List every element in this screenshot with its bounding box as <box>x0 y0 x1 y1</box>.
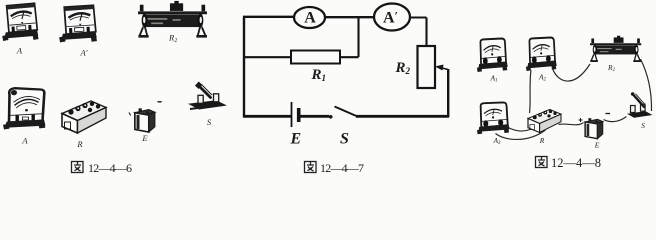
wire battery E left to R box right <box>559 123 584 125</box>
resistance box R (pictorial) <box>62 101 106 133</box>
svg-text:R2: R2 <box>395 60 411 76</box>
ammeter A1 (pictorial) <box>477 39 508 72</box>
wiper arrow of R2 <box>440 68 448 70</box>
wire: battery to switch <box>299 115 329 118</box>
battery cell E (pictorial) <box>585 118 603 139</box>
svg-text:A2: A2 <box>538 73 547 83</box>
wire: junction drop to R1 right <box>357 17 359 57</box>
svg-text:A1: A1 <box>489 74 497 84</box>
wire: bottom left segment <box>243 115 291 118</box>
wire: A' to R2 top <box>410 18 427 47</box>
ammeter A' <box>374 4 410 31</box>
svg-text:E: E <box>594 141 600 150</box>
wire A2 right terminal to rheostat left <box>553 64 591 81</box>
tick mark left of cell <box>129 113 131 116</box>
ammeter A (pictorial, top-left) <box>2 3 38 41</box>
ammeter A2 (pictorial) <box>526 38 557 71</box>
caption fig 12-4-8: character tu <box>536 157 548 168</box>
battery E plates <box>291 102 293 127</box>
wire R box left bottom to A3 right terminal <box>507 127 531 132</box>
svg-text:12—4—8: 12—4—8 <box>551 156 601 170</box>
svg-text:A′: A′ <box>383 8 398 26</box>
battery cell E (pictorial) <box>135 108 155 132</box>
wire A2 left terminal down to R box <box>530 70 532 113</box>
svg-text:R2: R2 <box>607 63 616 73</box>
svg-text:A: A <box>16 46 23 56</box>
ammeter A <box>294 7 325 28</box>
switch S contact dot <box>329 115 333 119</box>
rheostat R2 (pictorial) <box>138 1 207 37</box>
rheostat R2 (pictorial) <box>590 36 641 62</box>
svg-text:E: E <box>290 131 302 148</box>
switch S lever <box>335 107 358 117</box>
svg-text:A: A <box>21 136 28 146</box>
svg-text:A: A <box>304 10 316 27</box>
resistance box R (pictorial) <box>528 109 561 132</box>
svg-text:R1: R1 <box>311 67 327 83</box>
resistor R1 <box>291 51 340 64</box>
svg-text:E: E <box>141 133 148 143</box>
wire: A to A' <box>325 16 374 18</box>
svg-text:12—4—7: 12—4—7 <box>320 161 364 175</box>
svg-text:A3: A3 <box>492 136 501 146</box>
svg-text:S: S <box>207 117 212 127</box>
wire switch left post to battery E <box>604 117 627 122</box>
wire: left rail <box>243 17 245 118</box>
svg-text:R: R <box>76 139 83 149</box>
wires of fig 12-4-8 <box>496 59 652 139</box>
svg-text:S: S <box>340 131 349 148</box>
wire rheostat right end down to switch <box>641 59 652 111</box>
galvanometer A3 (pictorial, bottom-left) <box>3 88 46 129</box>
wire: left rail to R1 <box>244 56 291 58</box>
knife switch S (pictorial) <box>188 82 227 110</box>
rheostat R2 <box>418 46 436 88</box>
svg-text:12—4—6: 12—4—6 <box>88 161 132 175</box>
ammeter A3 (pictorial) <box>477 102 510 134</box>
svg-text:R2: R2 <box>168 33 177 45</box>
wire: top left to ammeter A <box>243 16 294 18</box>
svg-text:A′: A′ <box>79 48 87 58</box>
plus mark of cell <box>158 101 162 103</box>
wire: right rail <box>447 69 449 117</box>
svg-text:S: S <box>641 121 645 130</box>
wire A3 left terminal looping under to R box bottom right <box>496 130 546 139</box>
caption fig 12-4-7: character tu <box>305 162 317 173</box>
ammeter A' (pictorial) <box>59 5 97 43</box>
minus mark <box>606 113 611 115</box>
caption fig 12-4-6: character tu <box>72 162 84 173</box>
wire: R1 to junction <box>340 56 359 58</box>
knife switch S (pictorial) <box>627 92 653 118</box>
svg-text:R: R <box>539 136 545 145</box>
wire: switch to right rail <box>356 115 449 118</box>
plus mark <box>579 118 583 122</box>
